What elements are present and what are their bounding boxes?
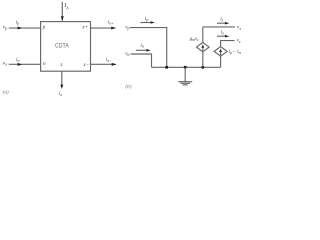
current arrow in on wire xyxy=(18,63,23,66)
wire x+ output xyxy=(91,27,116,29)
wire x- output xyxy=(91,63,117,65)
arrow ix- xyxy=(112,63,117,66)
svg-text:z: z xyxy=(59,62,62,68)
svg-text:(b): (b) xyxy=(125,83,131,90)
junction gm source xyxy=(201,66,204,69)
svg-text:gmvz: gmvz xyxy=(190,37,199,42)
svg-text:p: p xyxy=(42,24,46,30)
wire z output xyxy=(61,71,63,85)
junction vp xyxy=(165,66,168,69)
current arrow ix xyxy=(217,22,226,24)
ground rail wire xyxy=(152,66,221,68)
svg-text:(a): (a) xyxy=(3,88,9,95)
wire n input xyxy=(9,63,41,65)
current arrow ip on wire xyxy=(18,27,23,30)
arrow ix+ xyxy=(111,27,116,30)
svg-text:x−: x− xyxy=(82,62,89,68)
wire vp to rail xyxy=(130,28,167,68)
junction ground xyxy=(184,66,187,69)
svg-text:ix+: ix+ xyxy=(108,20,114,26)
current arrow in xyxy=(136,49,148,51)
controlled source gm*vz xyxy=(197,27,210,67)
wire p input xyxy=(9,27,41,29)
arrow Ib down xyxy=(61,16,64,20)
svg-text:n: n xyxy=(43,61,46,67)
wire z output xyxy=(221,41,235,47)
wire x output xyxy=(203,26,235,28)
svg-text:CDTA: CDTA xyxy=(55,43,69,49)
svg-text:ix−: ix− xyxy=(106,57,112,63)
arrow iz down xyxy=(60,85,63,89)
ground xyxy=(178,67,192,85)
current arrow iz xyxy=(217,35,226,37)
CDTA block U1 xyxy=(41,22,91,72)
bias current Ib wire xyxy=(61,2,63,21)
controlled source ip-in xyxy=(214,47,227,68)
current arrow ip xyxy=(141,22,153,24)
svg-text:x+: x+ xyxy=(81,25,88,31)
wire vn to rail xyxy=(131,54,152,67)
